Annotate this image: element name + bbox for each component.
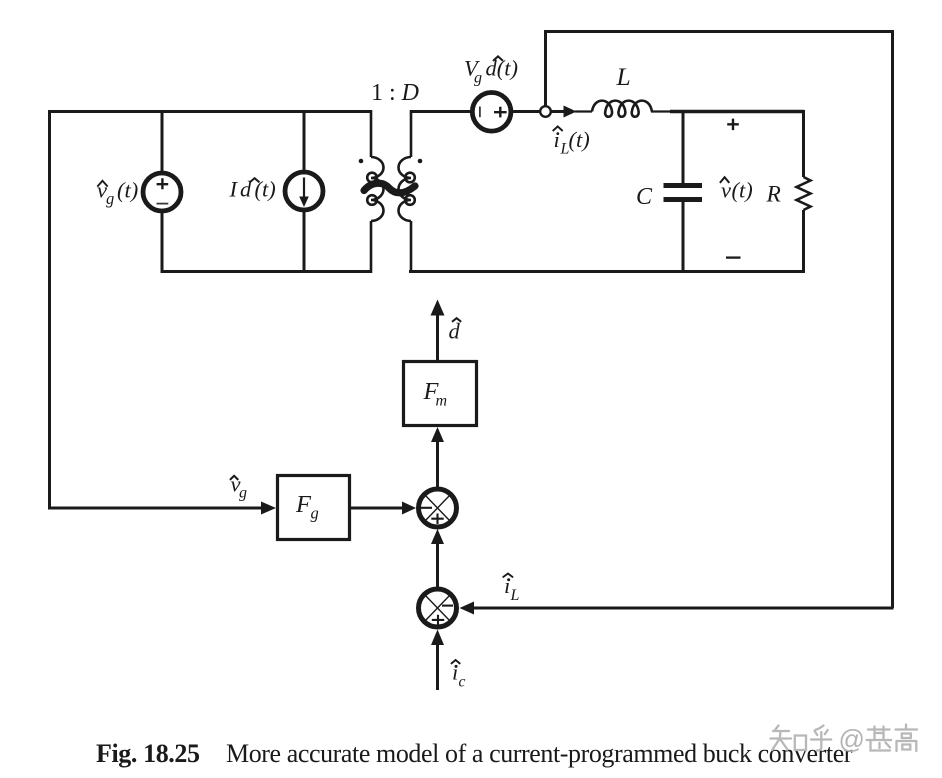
- current source I d(t): [285, 172, 323, 210]
- caption figure number: [96, 739, 200, 768]
- transformer secondary bottom stub: [410, 221, 413, 273]
- wire v_g source bottom stub: [161, 211, 164, 273]
- svg-text:L: L: [510, 587, 520, 604]
- arrowhead into summer2 right: [460, 602, 475, 615]
- caption text: [226, 739, 853, 768]
- label v(t): [720, 177, 753, 202]
- label v_g(t): [97, 178, 138, 209]
- label L: [616, 62, 631, 91]
- wire inductor to output node: [651, 110, 672, 112]
- arrowhead into summer1: [402, 502, 416, 515]
- wire v_g source top stub: [161, 111, 164, 173]
- wire capacitor bottom stub: [682, 201, 685, 273]
- voltage source vg(t): [143, 173, 181, 211]
- watermark zhihu: [771, 725, 918, 752]
- label plus output: [727, 119, 739, 131]
- svg-text:g: g: [239, 485, 247, 502]
- wire bottom-right rail: [409, 270, 805, 273]
- svg-text:c: c: [459, 674, 466, 691]
- wire secondary top rail to Vg source: [411, 110, 472, 113]
- wire right feedback vertical: [891, 30, 894, 608]
- label Vg d(t): [464, 56, 518, 87]
- voltage source vg(t) plus sign: [157, 178, 169, 189]
- node small circle: [540, 106, 551, 117]
- wire vg into Fg: [48, 507, 262, 510]
- transformer secondary dot: [418, 159, 423, 164]
- summer 2 circle: [419, 589, 457, 627]
- svg-text:I: I: [229, 177, 239, 202]
- summer 1 minus: [421, 507, 432, 509]
- wire top-left rail: [48, 110, 371, 113]
- summer 1 X cross: [425, 495, 451, 522]
- svg-text:(t): (t): [117, 178, 138, 203]
- wire capacitor top stub: [682, 111, 685, 183]
- wire Fg to summer1: [351, 507, 403, 510]
- wire node to arrow: [551, 110, 565, 113]
- svg-text:d: d: [449, 319, 461, 344]
- Vg source minus bar: [479, 107, 481, 118]
- transformer core stroke: [364, 183, 415, 193]
- svg-text:C: C: [636, 184, 653, 210]
- wire resistor bottom stub: [802, 210, 805, 273]
- wire top feedback rail: [544, 30, 893, 33]
- summer 1 circle: [419, 489, 457, 527]
- svg-text:L: L: [616, 62, 631, 91]
- label Fg: [295, 491, 319, 523]
- svg-text:1 : D: 1 : D: [371, 80, 419, 106]
- svg-text:Fig. 18.25: Fig. 18.25: [96, 739, 200, 768]
- wire Vg source to node: [512, 110, 540, 113]
- label d hat: [449, 318, 462, 343]
- label ic hat: [451, 660, 466, 691]
- wire output top rail: [670, 110, 804, 113]
- summer 1 plus: [431, 514, 443, 525]
- summer 2 plus: [432, 615, 444, 626]
- label R: [766, 182, 781, 208]
- current source arrow inside: [303, 178, 305, 199]
- wire summer1 to Fm: [436, 441, 439, 487]
- arrowhead d hat up: [431, 300, 445, 316]
- svg-text:g: g: [474, 70, 482, 87]
- summer 2 minus: [442, 605, 453, 607]
- voltage source vg(t) minus sign: [157, 203, 169, 205]
- wire summer2 to summer1: [436, 543, 439, 587]
- arrowhead into Fg: [261, 502, 276, 515]
- label iL(t): [553, 126, 590, 157]
- label v_g hat: [230, 472, 247, 502]
- svg-text:@: @: [839, 724, 865, 754]
- wire left feedback vertical: [48, 110, 51, 510]
- svg-text:More accurate model of a curre: More accurate model of a current-program…: [226, 739, 853, 768]
- svg-text:(t): (t): [569, 127, 590, 152]
- label iL hat: [503, 573, 520, 604]
- wire Fm output up: [436, 314, 439, 360]
- transformer secondary top stub: [410, 110, 413, 157]
- svg-text:R: R: [766, 182, 781, 208]
- wire I d source top stub: [303, 111, 306, 171]
- label Fm: [423, 378, 448, 409]
- arrowhead iL: [564, 106, 577, 118]
- wire resistor top stub: [802, 110, 805, 177]
- transformer primary winding: [367, 157, 383, 221]
- svg-text:(t): (t): [732, 177, 753, 202]
- block Fg box: [278, 476, 350, 540]
- svg-text:g: g: [106, 189, 114, 208]
- wire node up to feedback: [544, 31, 547, 106]
- label C: [636, 184, 653, 210]
- svg-text:i: i: [554, 127, 560, 152]
- wire ic up into summer2: [436, 645, 439, 690]
- voltage source Vg d(t): [472, 93, 511, 132]
- svg-text:m: m: [436, 393, 448, 410]
- svg-text:g: g: [311, 504, 319, 523]
- wire iL feedback horizontal: [473, 607, 894, 610]
- Vg source plus sign: [494, 107, 507, 118]
- transformer primary bottom stub: [370, 221, 373, 273]
- inductor L: [592, 101, 652, 117]
- arrowhead into Fm: [431, 427, 444, 442]
- wire arrow to inductor: [575, 110, 592, 112]
- transformer secondary winding: [399, 157, 415, 221]
- arrowhead into summer2 bottom: [431, 630, 444, 646]
- wire bottom-left rail: [161, 270, 371, 273]
- arrowhead into summer1 bottom: [431, 529, 444, 544]
- transformer primary top stub: [370, 110, 373, 157]
- svg-text:d: d: [240, 177, 252, 202]
- label minus output: [726, 256, 741, 258]
- svg-text:F: F: [295, 491, 312, 518]
- capacitor C plates: [664, 183, 703, 202]
- resistor R zigzag: [797, 177, 811, 210]
- label 1 : D: [371, 80, 419, 106]
- label I d(t): [229, 177, 276, 202]
- wire I d source bottom stub: [303, 211, 306, 273]
- summer 2 X cross: [425, 595, 451, 622]
- block Fm box: [404, 362, 477, 426]
- transformer primary dot: [359, 159, 364, 164]
